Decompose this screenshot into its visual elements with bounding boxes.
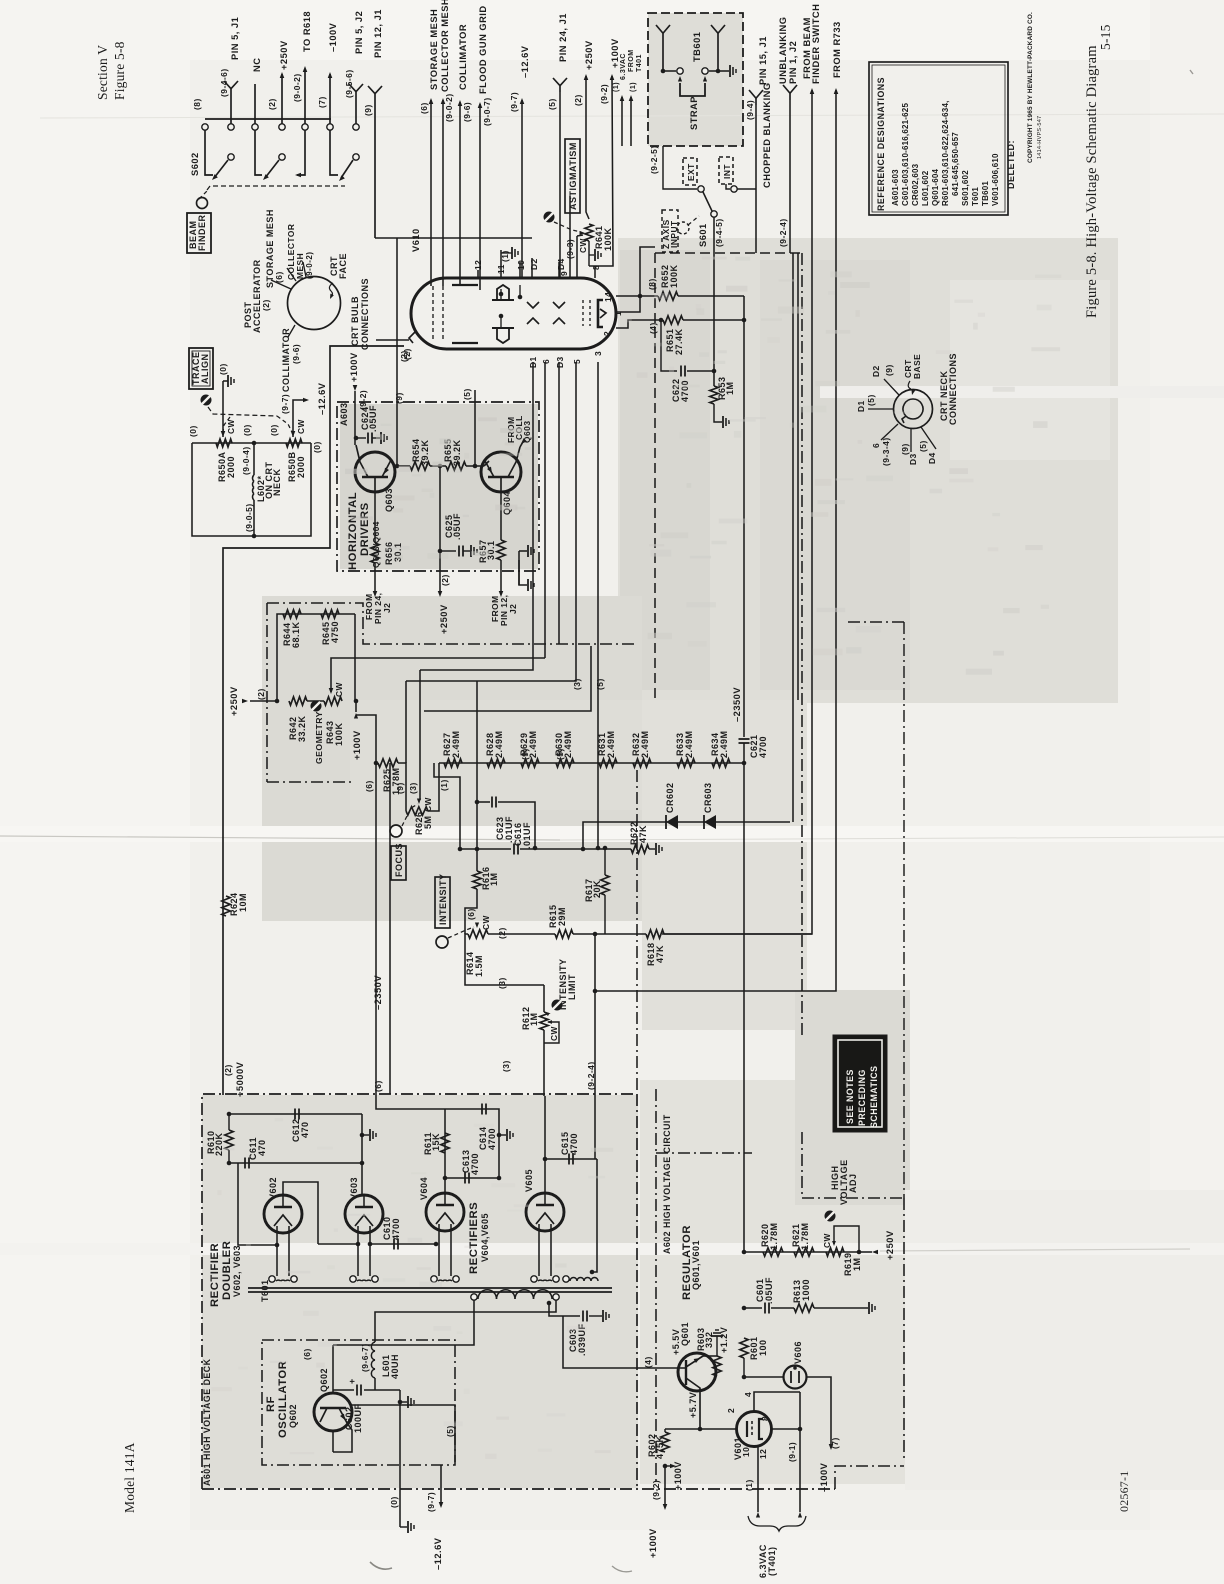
arrow R626 CW (417, 799, 421, 805)
CRT neck key circle (902, 399, 923, 423)
wire v601 pin2 row (665, 1428, 737, 1430)
svg-text:L601,602: L601,602 (921, 170, 930, 206)
wire bracket b (519, 560, 527, 585)
svg-text:(9-0-2): (9-0-2) (305, 251, 314, 279)
svg-text:V603: V603 (349, 1177, 359, 1200)
wire r616 down (465, 889, 477, 934)
svg-text:S601: S601 (698, 223, 708, 247)
svg-text:V605: V605 (524, 1169, 534, 1192)
svg-text:(9-1): (9-1) (787, 1442, 797, 1462)
dash to R650A CW (223, 417, 230, 432)
CRT pin11 stub (500, 250, 502, 278)
wire v601 pin4 (754, 1392, 800, 1411)
ground R641 (594, 249, 596, 261)
wire (1) drop (434, 763, 460, 849)
svg-text:FACE: FACE (338, 253, 348, 279)
svg-text:(1): (1) (630, 82, 637, 92)
geometry dash bottom (267, 781, 352, 783)
node r619 right (857, 1250, 862, 1255)
wire c625 exit (439, 551, 441, 594)
wire +250V reg (859, 1251, 872, 1253)
wire pin5J1 up (230, 95, 232, 124)
svg-text:TB601: TB601 (981, 181, 990, 206)
wire int stub (726, 184, 730, 189)
svg-text:(2): (2) (223, 1064, 233, 1076)
node pin14 (638, 294, 643, 299)
wire row to r617 (598, 848, 605, 850)
wire 400 gnd stub (400, 1401, 407, 1403)
svg-text:4700: 4700 (470, 1153, 480, 1175)
contact int (731, 186, 737, 192)
CRT mesh dashed 1 (432, 286, 434, 342)
wire -100V up (329, 74, 331, 124)
node v604 pin (434, 1242, 439, 1247)
svg-text:(4): (4) (643, 1356, 653, 1368)
svg-text:(4): (4) (648, 322, 658, 334)
module RF box (262, 1340, 455, 1465)
potentiometer R643 (324, 697, 342, 705)
ground c603 (602, 1310, 604, 1322)
node 5 junction (473, 464, 478, 469)
svg-text:V602: V602 (268, 1177, 278, 1200)
winding hv (563, 1276, 569, 1282)
arrow R733 rail (834, 88, 839, 94)
wire R650 box (192, 442, 311, 444)
V601 plate bracket (759, 1419, 763, 1439)
wire r654 r655 (430, 465, 446, 467)
node S602 contact pin5J1 (228, 124, 234, 130)
svg-text:.05UF: .05UF (368, 405, 378, 432)
node pin8 node (798, 1427, 803, 1432)
wire r617 wires (604, 849, 606, 875)
svg-text:4700: 4700 (680, 380, 690, 402)
wire pin3 drop (597, 362, 599, 848)
wire S602 arm1 (214, 160, 228, 178)
Q604 emitter arrow (487, 467, 494, 474)
arrow -100V exit (829, 1444, 834, 1450)
svg-text:(2): (2) (497, 927, 507, 939)
boundary A600 dash left (654, 253, 656, 700)
svg-text:V606: V606 (793, 1341, 803, 1364)
arrow R612 CW (547, 1020, 552, 1024)
wire c622 branch (661, 320, 677, 371)
svg-text:47K: 47K (655, 945, 665, 963)
wire l601 bottom (374, 1378, 376, 1390)
wire S602 arm3 (341, 160, 353, 178)
svg-text:220K: 220K (214, 1132, 224, 1156)
svg-text:CW: CW (481, 915, 491, 930)
svg-text:(9-7): (9-7) (426, 1492, 436, 1512)
wire v605 anode col (544, 1096, 546, 1193)
node 362 gnd (360, 1133, 365, 1138)
wire pin15 stem (755, 105, 757, 253)
svg-text:2: 2 (602, 331, 612, 336)
resistor R601 (740, 1338, 748, 1358)
svg-text:6: 6 (871, 443, 881, 448)
hv adj screwdriver (825, 1211, 836, 1222)
arrow strap a (678, 76, 682, 82)
node c623 left (475, 800, 480, 805)
wire 9-2 into c624 (354, 438, 356, 445)
svg-text:(0): (0) (218, 363, 228, 375)
svg-text:1.5M: 1.5M (474, 955, 484, 977)
svg-text:1M: 1M (852, 1257, 862, 1271)
svg-text:(9-0-4): (9-0-4) (241, 446, 251, 475)
svg-text:(1): (1) (439, 779, 449, 791)
wire beam finder rail (662, 90, 812, 934)
svg-text:HORIZONTAL: HORIZONTAL (347, 492, 359, 570)
CRT pin12 stub (477, 270, 479, 278)
wire c623 riser (476, 681, 478, 801)
wire c616 row (460, 848, 511, 850)
potentiometer R650B (286, 439, 302, 447)
svg-text:1414-HVPS-547: 1414-HVPS-547 (1037, 116, 1043, 159)
svg-text:100K: 100K (603, 227, 613, 251)
svg-text:–2350V: –2350V (732, 687, 742, 722)
neck spoke D1 (868, 408, 893, 410)
neck spoke D3 (910, 429, 912, 452)
svg-text:–100V: –100V (328, 22, 338, 52)
arrow R650B CW (291, 431, 296, 437)
capacitor C624 (367, 433, 369, 444)
arrow flood gun (478, 102, 483, 108)
wire c622 right (687, 370, 714, 372)
trace align screwdriver (201, 395, 212, 406)
diode CR602 (665, 815, 667, 829)
svg-text:6.3VAC: 6.3VAC (620, 53, 627, 80)
wire v605 pins (538, 1230, 540, 1276)
svg-text:+250V: +250V (229, 686, 239, 716)
wire r626 wiper (419, 670, 421, 800)
svg-text:1M: 1M (529, 1012, 539, 1026)
svg-text:6: 6 (541, 359, 551, 364)
vacuum tube V603 (345, 1195, 383, 1233)
ground c614 (506, 1129, 508, 1141)
wire pin48 strap (799, 1392, 801, 1429)
Q601 base wire (681, 1367, 686, 1369)
wire q602 base (332, 1431, 334, 1452)
wire q603 base down (374, 492, 376, 543)
wire collector mesh line (442, 100, 444, 286)
inductor L601 (371, 1342, 375, 1351)
svg-text:D4: D4 (927, 452, 937, 464)
arrow TO R618 down (295, 173, 301, 178)
wire R641 wiper pin9 (576, 236, 578, 278)
wire 5 vertical (474, 390, 476, 466)
Q604 collector (508, 447, 520, 477)
node geom right (354, 699, 359, 704)
svg-text:10M: 10M (238, 893, 248, 912)
ground rf b (407, 1521, 409, 1533)
wire c614 row (445, 1109, 499, 1178)
svg-text:(3): (3) (572, 678, 582, 690)
pointer CRT FACE (329, 283, 333, 297)
wire 595 rail (594, 934, 596, 991)
wire +100V crt line (589, 76, 613, 266)
CRT collimator bar bottom (452, 342, 478, 344)
svg-text:9: 9 (559, 271, 569, 276)
svg-text:S602: S602 (190, 152, 200, 176)
svg-text:T601: T601 (971, 187, 980, 206)
arrow 6.3vac b (629, 95, 634, 101)
arrow c625 exit (438, 591, 443, 597)
resistor R653 (710, 386, 718, 404)
resistor R613 (794, 1304, 814, 1312)
Q601 base bar (685, 1360, 687, 1385)
svg-text:(3): (3) (501, 1060, 511, 1072)
pointer CRT BASE (908, 381, 911, 389)
svg-text:02567-1: 02567-1 (1117, 1471, 1131, 1512)
wire r656 exit (374, 563, 376, 594)
wire c624 stub (356, 437, 366, 439)
CRT D4 stub (558, 262, 560, 278)
wire c623 right (498, 802, 535, 848)
wire +250V up (281, 74, 283, 124)
svg-text:(9-6): (9-6) (291, 344, 301, 364)
svg-text:T601: T601 (260, 1279, 270, 1302)
svg-text:(1): (1) (500, 250, 510, 262)
winding v604 (431, 1276, 437, 1282)
vacuum tube V601 envelope (737, 1412, 772, 1447)
vacuum tube V605 (526, 1193, 564, 1231)
label Z AXIS box (662, 210, 678, 252)
module A602 right dash (802, 1197, 904, 1199)
boundary A600 dash top (655, 252, 802, 254)
CRT gun bracket top (497, 285, 509, 300)
capacitor C613 (464, 1173, 466, 1184)
node bus top (742, 1250, 747, 1255)
Q602 emitter arrow (340, 1414, 347, 1421)
svg-text:15K: 15K (431, 1133, 441, 1151)
arrow -12.6V top (520, 98, 525, 104)
wire PIN12 J1 long (374, 100, 376, 238)
wire c610 row (370, 1243, 436, 1245)
wire v602 pins (276, 1232, 278, 1276)
svg-text:NC: NC (252, 58, 262, 72)
module A601 box (202, 1094, 637, 1489)
arrow S602 arm3 (337, 175, 344, 182)
svg-text:–12.6V: –12.6V (317, 382, 327, 415)
svg-text:(9): (9) (395, 782, 405, 794)
resistor R628 (487, 759, 505, 767)
svg-text:MESH: MESH (295, 253, 305, 279)
neon lamp V606 (784, 1366, 807, 1389)
capacitor C623 (491, 797, 493, 808)
svg-text:5-15: 5-15 (1098, 24, 1113, 50)
wire NC up (254, 84, 256, 124)
wire 362 gnd stub (362, 1134, 369, 1136)
svg-text:.01UF: .01UF (522, 822, 532, 849)
CRT V610 envelope (411, 278, 616, 349)
label EXT box (683, 158, 697, 185)
V601 grid bars (746, 1421, 748, 1437)
svg-text:REFERENCE DESIGNATIONS: REFERENCE DESIGNATIONS (876, 77, 886, 211)
svg-text:CHOPPED BLANKING: CHOPPED BLANKING (762, 82, 772, 188)
contact s601 arm (711, 211, 717, 217)
svg-text:T401: T401 (636, 54, 643, 72)
resistor R611 (441, 1133, 449, 1153)
svg-text:+100V: +100V (648, 1528, 658, 1558)
svg-text:470: 470 (257, 1139, 267, 1156)
z axis actuator (677, 222, 689, 234)
svg-text:S601,602: S601,602 (961, 170, 970, 206)
node geom left (275, 699, 280, 704)
dash astig to R641 (554, 222, 581, 232)
diode row wire (583, 822, 790, 849)
geometry screwdriver (311, 701, 322, 712)
svg-text:FROM: FROM (628, 49, 635, 72)
arrow +100V bottom (663, 1504, 668, 1510)
wire collimator line (459, 102, 461, 285)
resistor R625 (378, 759, 398, 767)
svg-text:(9): (9) (900, 443, 910, 455)
arrow S602 arm1 (210, 174, 217, 181)
svg-text:(9-4): (9-4) (745, 100, 755, 120)
module A602 upper dash (801, 253, 803, 1035)
wire r642 r643 (307, 700, 324, 702)
label INT box (719, 157, 733, 184)
svg-text:FINDER: FINDER (197, 215, 207, 252)
wire flood gun grid line (479, 104, 481, 290)
arrow S602 arm2 (261, 174, 268, 181)
Q601 collector arrow (694, 1356, 701, 1363)
svg-text:TB601: TB601 (692, 32, 702, 62)
svg-text:C601-603,610-616,621-625: C601-603,610-616,621-625 (901, 103, 910, 206)
R650 box outline (192, 443, 311, 536)
svg-text:(3): (3) (497, 977, 507, 989)
ground crt pin11 (511, 247, 513, 259)
svg-text:(2): (2) (440, 574, 450, 586)
svg-text:4700: 4700 (391, 1218, 401, 1240)
winding v602 (269, 1276, 275, 1282)
wire q602 emitter out (333, 1423, 352, 1452)
svg-text:2000: 2000 (296, 456, 306, 478)
wire -12.6 bracket (519, 550, 527, 552)
svg-text:+250V: +250V (439, 604, 449, 634)
wire unblanking stem (789, 100, 791, 253)
resistor R602 (661, 1432, 669, 1452)
wire R620 bus (744, 1251, 859, 1253)
notes box (833, 1035, 887, 1132)
svg-text:V601-606,610: V601-606,610 (991, 153, 1000, 206)
wire v602 left link (238, 1163, 277, 1245)
node v603 pin b (368, 1242, 373, 1247)
CRT D2 stub (531, 258, 533, 278)
wire v604 pins (438, 1230, 440, 1276)
svg-text:(1): (1) (613, 82, 620, 92)
Q604 base stub (500, 477, 502, 492)
arrow -100V (328, 72, 333, 78)
arrow storage mesh (429, 98, 434, 104)
node v606 left (742, 1375, 747, 1380)
arrow TO R618 (303, 66, 308, 72)
svg-text:Q601: Q601 (680, 1322, 690, 1346)
svg-text:(0): (0) (188, 425, 198, 437)
svg-text:A602 HIGH VOLTAGE CIRCUIT: A602 HIGH VOLTAGE CIRCUIT (662, 1114, 672, 1254)
svg-text:(9-0-7): (9-0-7) (482, 97, 492, 126)
capacitor C601 (764, 1303, 766, 1314)
wire c625 stub (440, 550, 456, 552)
svg-text:(2): (2) (402, 348, 412, 360)
wire R733 rail (595, 90, 836, 991)
node pin2 a (659, 318, 664, 323)
wire -12.6 exit (440, 1297, 442, 1489)
winding v603 (350, 1276, 356, 1282)
svg-text:INT: INT (722, 164, 732, 179)
svg-text:Q601-604: Q601-604 (931, 168, 940, 206)
capacitor C611 (244, 1158, 246, 1169)
focus actuator (390, 825, 402, 837)
node r610 bottom (227, 1161, 232, 1166)
svg-text:2.49M: 2.49M (684, 730, 694, 758)
svg-text:(9-7): (9-7) (509, 92, 519, 112)
wire r655 right (466, 465, 475, 467)
node (1) row (458, 847, 463, 852)
svg-text:D3: D3 (908, 453, 918, 465)
arrow +250V crt (584, 74, 589, 80)
wire Q603 emitter to r654 (391, 454, 397, 466)
wire c603 gnd (589, 1315, 602, 1317)
svg-text:2.49M: 2.49M (528, 730, 538, 758)
Q601 emitter line (686, 1378, 700, 1429)
node C624 (354, 436, 359, 441)
svg-text:39.2K: 39.2K (420, 439, 430, 466)
svg-text:(7): (7) (317, 96, 327, 108)
svg-text:+250V: +250V (885, 1230, 895, 1260)
svg-text:+1.2V: +1.2V (719, 1327, 729, 1353)
focus dash (402, 804, 418, 826)
arrow 63vac b (798, 1512, 802, 1518)
wire S602 bus (205, 118, 331, 120)
resistor R610 (225, 1130, 233, 1150)
arrow R619 CW (832, 1241, 836, 1246)
svg-text:(5): (5) (595, 678, 605, 690)
wire c614 gnd stub (499, 1134, 506, 1136)
svg-text:FOCUS: FOCUS (394, 843, 404, 877)
node c616 mid (533, 846, 538, 851)
Q603 collector (356, 445, 368, 477)
arrow R650A CW (221, 431, 226, 437)
rail -2350V left (389, 763, 391, 1094)
node pin3 row (596, 846, 601, 851)
arrow +100V 9-2 (353, 385, 358, 391)
svg-text:COLLIMATOR: COLLIMATOR (458, 24, 468, 90)
svg-text:(5): (5) (462, 388, 472, 400)
intensity limit screwdriver (552, 1000, 563, 1011)
wire pin8 down (799, 1429, 801, 1512)
connector fork PIN 5 J2 (355, 92, 357, 98)
node tb1 (661, 69, 666, 74)
svg-text:(2): (2) (573, 94, 583, 106)
resistor R642 (289, 697, 307, 705)
potentiometer R619 (826, 1248, 844, 1256)
node S602 contact -100V (327, 124, 333, 130)
CRT pin9 stub (569, 196, 571, 278)
wire r655 to q604 (475, 465, 484, 467)
wire r612 wiper loop (544, 1022, 559, 1043)
wire c621 to bleeder (743, 743, 745, 763)
svg-text:2: 2 (726, 1408, 736, 1413)
svg-text:V604,V605: V604,V605 (480, 1213, 490, 1262)
geometry dash left (266, 603, 268, 782)
terminal tb b (702, 68, 708, 74)
wire R650B wiper -12.6V (293, 400, 306, 437)
wire q604 collector up (520, 440, 524, 447)
svg-text:COLLECTOR MESH: COLLECTOR MESH (440, 0, 450, 92)
CRT mesh dashed 2 (442, 286, 444, 342)
svg-text:(T401): (T401) (767, 1546, 777, 1576)
svg-text:Figure 5-8: Figure 5-8 (112, 41, 127, 100)
